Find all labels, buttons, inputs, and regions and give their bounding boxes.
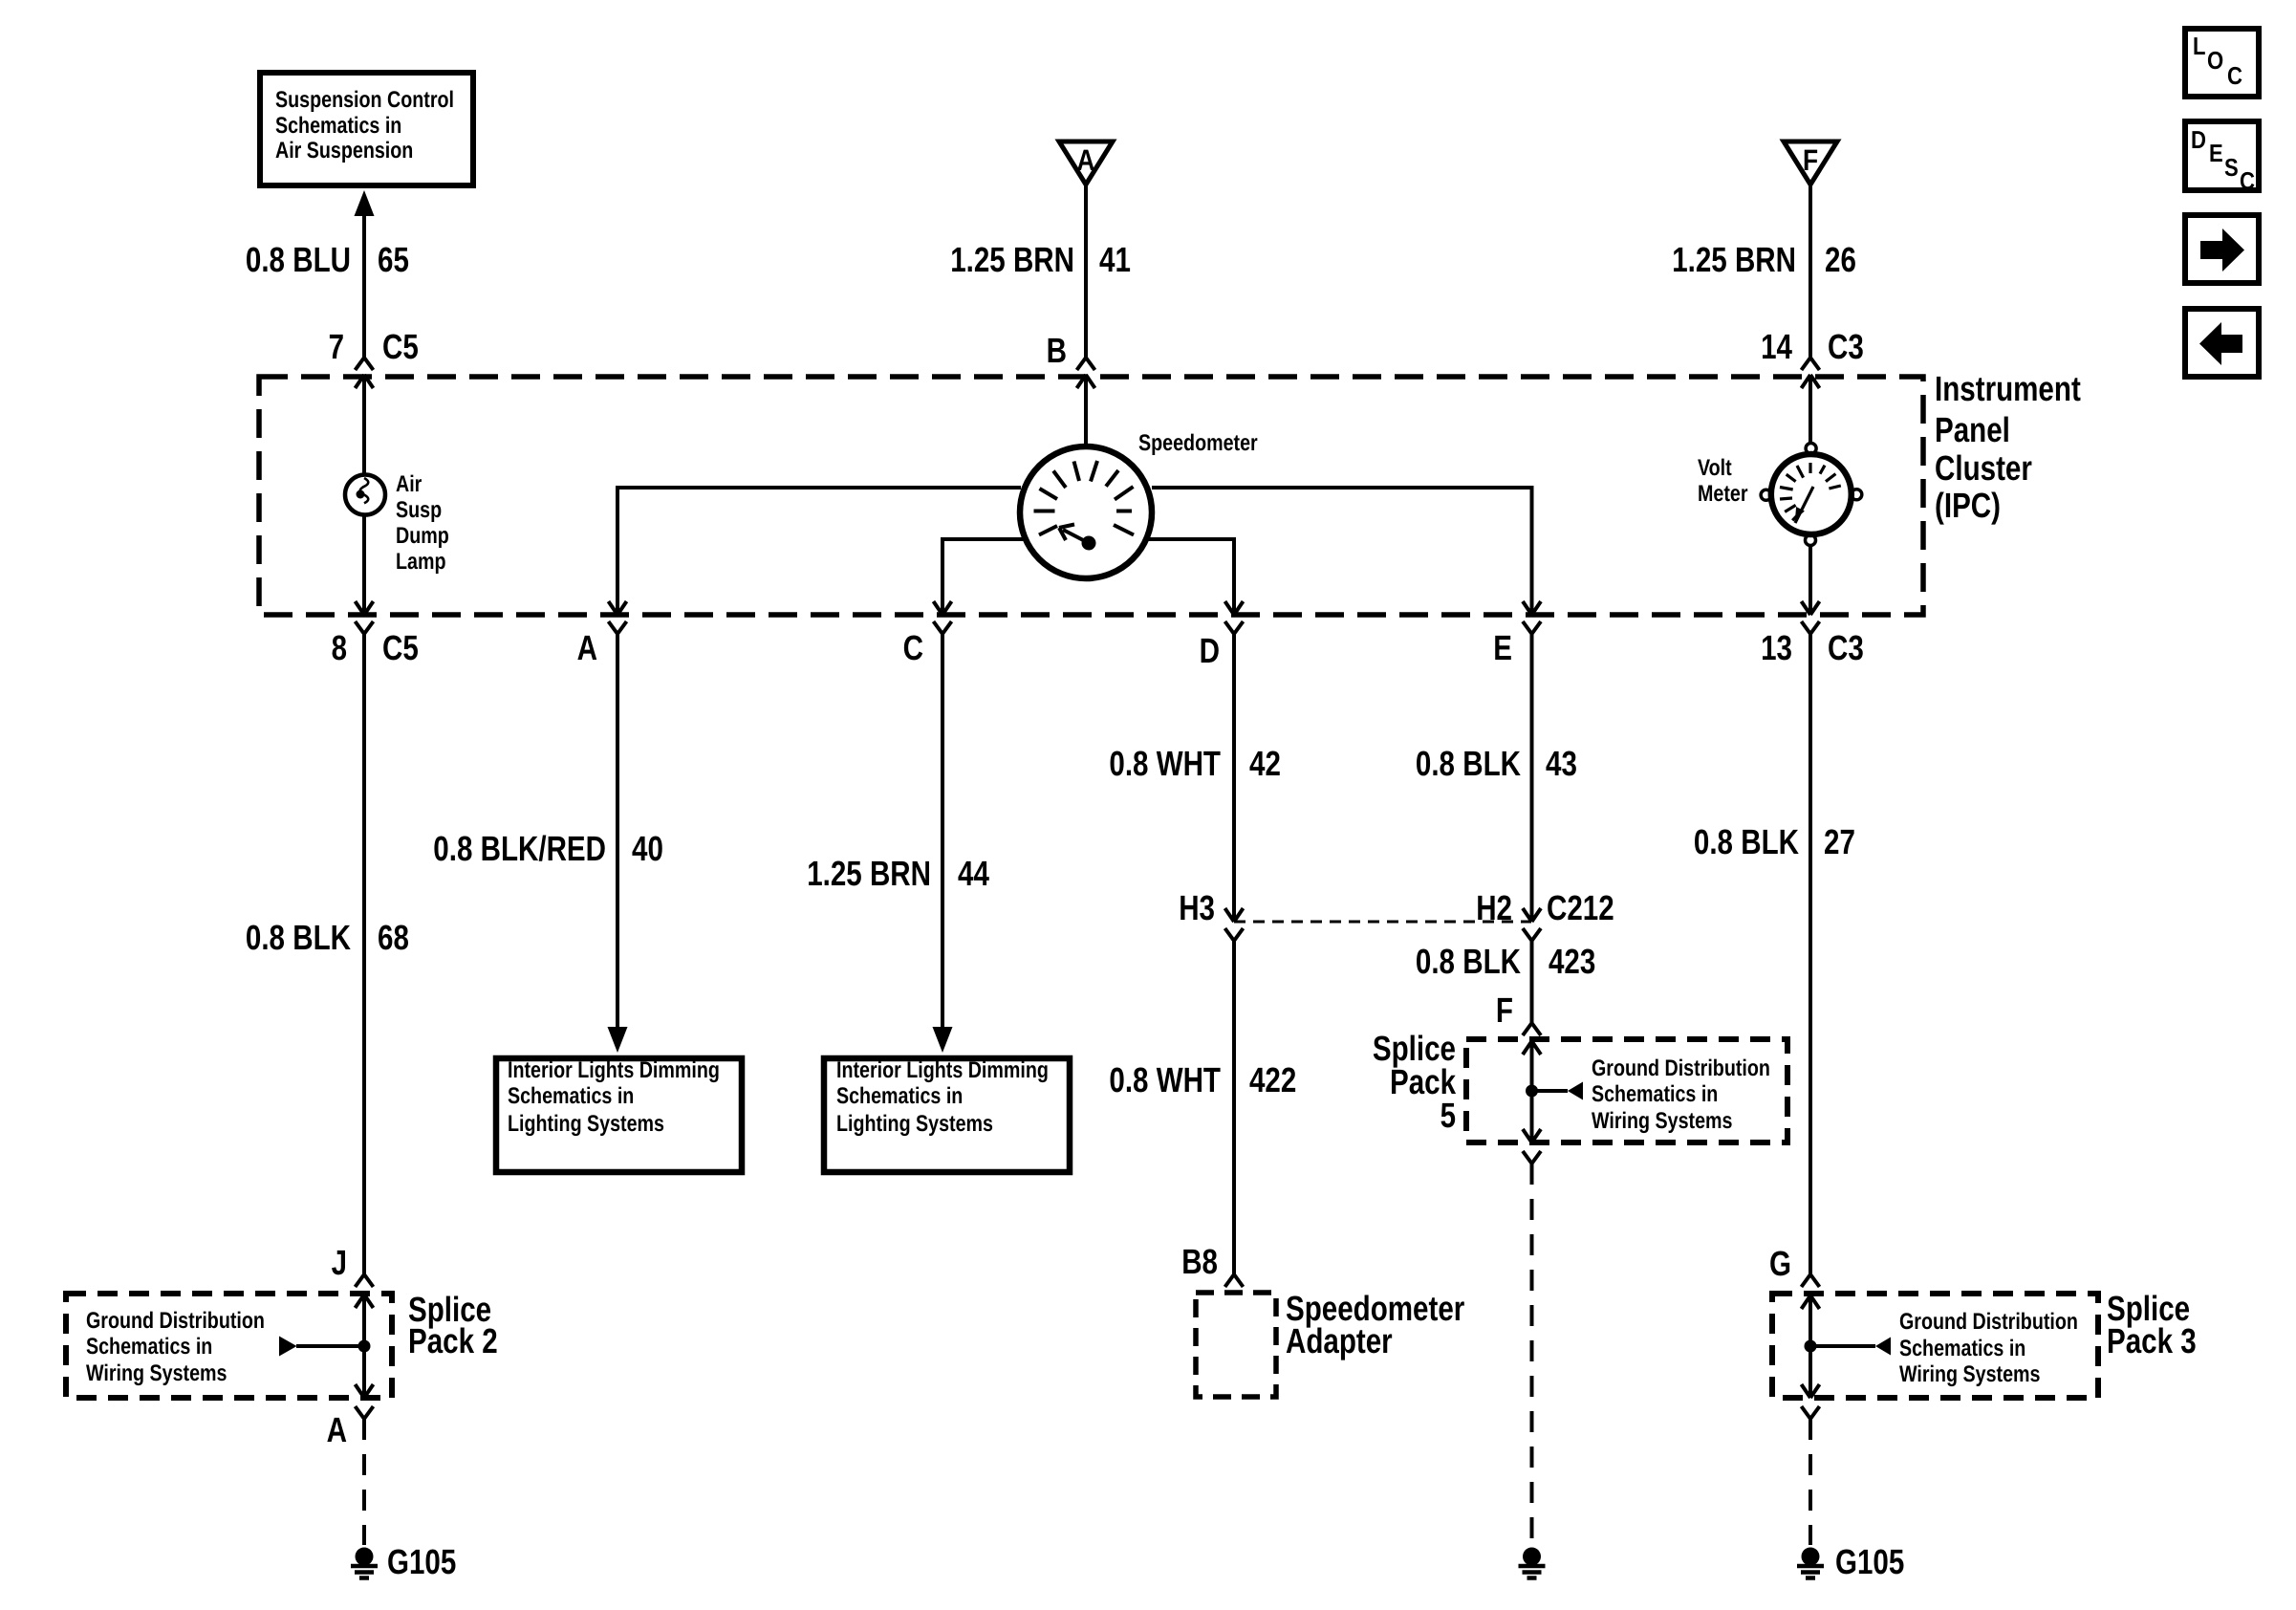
splice pack S2 dashed box: Ground Distribution Schematics in Wiring Systems [66,1294,392,1398]
needle [1795,487,1813,523]
connector symbol below splice pack 2 (terminal A) [356,1406,374,1419]
svg-text:C3: C3 [1828,628,1864,667]
connector symbol at IPC pin 8 C5 [356,621,374,634]
wire: splice S3 stub to Ground Distribution reference [1810,1338,1891,1356]
box: Interior Lights Dimming Schematics in Lighting Systems (right) [824,1057,1070,1172]
svg-text:Lighting Systems: Lighting Systems [508,1111,664,1137]
svg-text:C3: C3 [1828,327,1864,366]
wire: IPC pin B to speedometer [1084,375,1088,446]
lamp: Air Susp Dump Lamp [345,475,385,515]
svg-text:Ground Distribution: Ground Distribution [1899,1309,2078,1335]
svg-text:Wiring Systems: Wiring Systems [1592,1108,1733,1134]
svg-text:65: 65 [378,240,409,279]
svg-text:Volt: Volt [1698,455,1732,481]
wire (dashed) splice pack 5 to ground [1530,1164,1534,1545]
gauge U2: Volt Meter [1761,444,1862,546]
svg-text:Speedometer: Speedometer [1138,430,1258,456]
connector symbol below splice pack 5 [1523,1151,1541,1164]
label Splice Pack 3 [2107,1289,2197,1360]
splice pack S3 dashed box: Ground Distribution Schematics in Wiring Systems [1772,1294,2098,1398]
svg-text:14: 14 [1761,327,1792,366]
connector symbol at splice pack 2 terminal J [356,1274,374,1287]
svg-text:O: O [2207,46,2223,75]
svg-text:Lamp: Lamp [396,549,446,575]
svg-text:E: E [1493,628,1512,667]
svg-text:Dump: Dump [396,523,449,549]
wire inside splice pack 3 [1802,1295,1820,1398]
svg-text:Wiring Systems: Wiring Systems [86,1360,227,1386]
svg-text:Interior Lights Dimming: Interior Lights Dimming [836,1057,1049,1083]
svg-text:C: C [2227,61,2242,90]
connector symbol at IPC pin 13 C3 [1802,621,1820,634]
wire 43: 0.8 BLK from IPC pin E to C212 H2 [1523,634,1541,922]
connector symbol at IPC pin 7 C5 [356,358,374,388]
legend box LOC [2185,29,2259,97]
svg-text:Ground Distribution: Ground Distribution [86,1308,265,1334]
wire 422: 0.8 WHT from C212 H3 to Speedometer Adapter B8 [1232,941,1236,1274]
connector symbol at C212 H3 [1225,928,1244,941]
svg-text:42: 42 [1249,744,1281,783]
svg-text:Adapter: Adapter [1286,1321,1393,1360]
junction dot splice S3 [1805,1340,1817,1353]
wire (dashed) splice pack 3 to G105 [1809,1419,1812,1545]
junction dot splice S2 [358,1340,371,1353]
svg-text:Air: Air [396,471,422,497]
svg-text:Lighting Systems: Lighting Systems [836,1111,993,1137]
svg-text:Pack 3: Pack 3 [2107,1321,2197,1360]
svg-text:423: 423 [1549,942,1595,981]
svg-text:0.8 BLK/RED: 0.8 BLK/RED [433,829,606,868]
svg-text:Schematics in: Schematics in [836,1083,963,1109]
label Splice Pack 2 [408,1290,498,1360]
svg-text:Susp: Susp [396,497,442,523]
connector symbol at IPC pin D [1225,621,1244,634]
svg-text:27: 27 [1824,822,1855,861]
svg-text:A: A [1077,143,1095,177]
wire 65: 0.8 BLU from IPC pin 7 C5 up to Suspension Control box [355,190,375,358]
svg-text:F: F [1803,143,1818,177]
svg-text:0.8 BLK: 0.8 BLK [1694,822,1800,861]
svg-text:1.25 BRN: 1.25 BRN [1672,240,1796,279]
svg-text:G105: G105 [387,1542,456,1581]
wire: splice S2 stub to Ground Distribution reference [279,1337,364,1357]
wire 423: 0.8 BLK from C212 H2 to splice pack 5 pin F [1530,941,1534,1023]
svg-text:13: 13 [1761,628,1792,667]
svg-text:D: D [1200,631,1220,670]
label Instrument Panel Cluster (IPC) [1935,369,2081,525]
svg-text:0.8 BLU: 0.8 BLU [246,240,351,279]
svg-text:Schematics in: Schematics in [275,113,401,139]
off-page reference triangle A [1059,141,1113,185]
svg-text:C: C [2240,166,2255,195]
svg-text:B8: B8 [1181,1242,1218,1281]
wire 41: 1.25 BRN from triangle A to IPC pin B [1084,185,1088,358]
svg-text:G: G [1769,1244,1791,1283]
connector symbol at Speedometer Adapter pin B8 [1225,1274,1244,1287]
wire 68: 0.8 BLK from pin 8 C5 down to Splice Pack 2 [362,634,366,1274]
svg-text:Instrument: Instrument [1935,369,2081,408]
legend box forward arrow [2185,215,2259,283]
svg-text:L: L [2193,32,2206,60]
ground G105 (right) [1797,1548,1824,1578]
svg-text:Interior Lights Dimming: Interior Lights Dimming [508,1057,720,1083]
svg-text:5: 5 [1440,1096,1456,1135]
svg-text:J: J [332,1243,347,1282]
svg-text:40: 40 [632,829,663,868]
svg-text:S: S [2224,153,2239,182]
wire: speedometer ground to IPC pin E (inside IPC) [1152,488,1541,615]
connector symbol below splice pack 3 [1802,1406,1820,1419]
svg-text:0.8 BLK: 0.8 BLK [1416,744,1522,783]
svg-text:1.25 BRN: 1.25 BRN [807,854,931,893]
svg-text:8: 8 [332,628,347,667]
wire 42: 0.8 WHT from IPC pin D to C212 H3 [1225,634,1244,922]
ground G105 (left) [351,1548,378,1578]
wire: speedometer output to IPC pin D (inside IPC) [1145,539,1244,615]
connector symbol at IPC pin E [1523,621,1541,634]
IPC dashed box: Instrument Panel Cluster [259,377,1923,615]
svg-text:0.8 BLK: 0.8 BLK [246,918,352,957]
box: Suspension Control Schematics in Air Suspension [260,73,473,185]
junction dot splice S5 [1526,1085,1538,1098]
svg-text:68: 68 [378,918,409,957]
off-page reference triangle F [1784,141,1837,185]
svg-text:Cluster: Cluster [1935,448,2032,488]
svg-text:Ground Distribution: Ground Distribution [1592,1055,1770,1081]
connector symbol at IPC pin B [1077,358,1095,388]
svg-text:1.25 BRN: 1.25 BRN [950,240,1074,279]
svg-text:C5: C5 [382,628,419,667]
svg-text:43: 43 [1546,744,1577,783]
svg-text:C212: C212 [1547,888,1614,927]
svg-text:Schematics in: Schematics in [1592,1081,1718,1107]
wire: pin7 to Air Susp Dump Lamp [362,375,366,475]
wire inside splice pack 2 [356,1295,374,1398]
wire: pin 14 to volt meter [1809,375,1812,444]
label Splice Pack 5 [1373,1029,1457,1135]
wire: splice S5 stub to Ground Distribution reference [1532,1082,1584,1100]
svg-text:Air Suspension: Air Suspension [275,138,413,163]
label Air Susp Dump Lamp [396,471,449,575]
svg-text:H3: H3 [1179,888,1215,927]
svg-text:G105: G105 [1835,1542,1904,1581]
connector symbol at splice pack 3 terminal G [1802,1274,1820,1287]
svg-text:Wiring Systems: Wiring Systems [1899,1361,2041,1387]
connector symbol at C212 H2 [1523,928,1541,941]
svg-text:Schematics in: Schematics in [508,1083,634,1109]
wire inside splice pack 5 [1523,1041,1541,1142]
gauge U1: Speedometer [1020,446,1152,578]
splice pack S5 dashed box: Ground Distribution Schematics in Wiring Systems [1466,1039,1787,1142]
svg-text:422: 422 [1249,1060,1296,1099]
svg-text:B: B [1047,331,1067,370]
svg-text:44: 44 [958,854,989,893]
svg-text:C5: C5 [382,327,419,366]
svg-text:Panel: Panel [1935,410,2010,449]
connector symbol at IPC pin C [934,621,952,634]
label Volt Meter [1698,455,1748,507]
connector symbol at IPC pin A [609,621,627,634]
wire: speedometer illumination feed to IPC pin A (inside IPC) [609,488,1022,615]
wire: speedometer dimming feed to IPC pin C (inside IPC) [934,539,1028,615]
svg-text:(IPC): (IPC) [1935,486,2001,525]
ground (center) [1519,1548,1546,1578]
needle [1082,536,1096,551]
legend box DESC [2185,121,2259,195]
connector symbol at IPC pin 14 C3 [1802,358,1820,388]
svg-text:41: 41 [1099,240,1131,279]
wire: volt meter to IPC pin 13 C3 [1802,545,1820,615]
svg-text:Meter: Meter [1698,481,1748,507]
legend box back arrow [2185,309,2259,377]
svg-text:26: 26 [1825,240,1856,279]
svg-text:A: A [327,1410,347,1449]
svg-text:Schematics in: Schematics in [1899,1336,2025,1361]
connector C212 dashed interconnect line [1234,921,1531,924]
svg-text:F: F [1496,990,1513,1030]
connector symbol at splice pack 5 terminal F [1523,1023,1541,1035]
wire (dashed) splice pack 2 to G105 [362,1419,366,1545]
svg-text:Schematics in: Schematics in [86,1334,212,1360]
wire 27: 0.8 BLK from pin 13 C3 down to splice pack 3 [1809,634,1812,1274]
component: Speedometer Adapter (dashed box) [1196,1289,1464,1397]
svg-text:0.8 WHT: 0.8 WHT [1109,744,1221,783]
wire 40: 0.8 BLK/RED from IPC pin A to Interior Lights Dimming [608,634,628,1053]
svg-text:A: A [577,628,597,667]
svg-text:Pack 2: Pack 2 [408,1321,498,1360]
wire 26: 1.25 BRN from triangle F to IPC pin 14 C3 [1809,185,1812,358]
wire 44: 1.25 BRN from IPC pin C to Interior Lights Dimming [933,634,953,1053]
svg-text:D: D [2191,125,2206,154]
svg-text:C: C [903,628,923,667]
wire: lamp to IPC pin 8 C5 [356,514,374,615]
svg-text:0.8 WHT: 0.8 WHT [1109,1060,1221,1099]
svg-text:0.8 BLK: 0.8 BLK [1416,942,1522,981]
svg-text:Suspension Control: Suspension Control [275,87,454,113]
svg-text:7: 7 [329,327,344,366]
svg-text:H2: H2 [1476,888,1512,927]
svg-text:E: E [2209,139,2223,167]
box: Interior Lights Dimming Schematics in Lighting Systems (left) [496,1057,742,1172]
